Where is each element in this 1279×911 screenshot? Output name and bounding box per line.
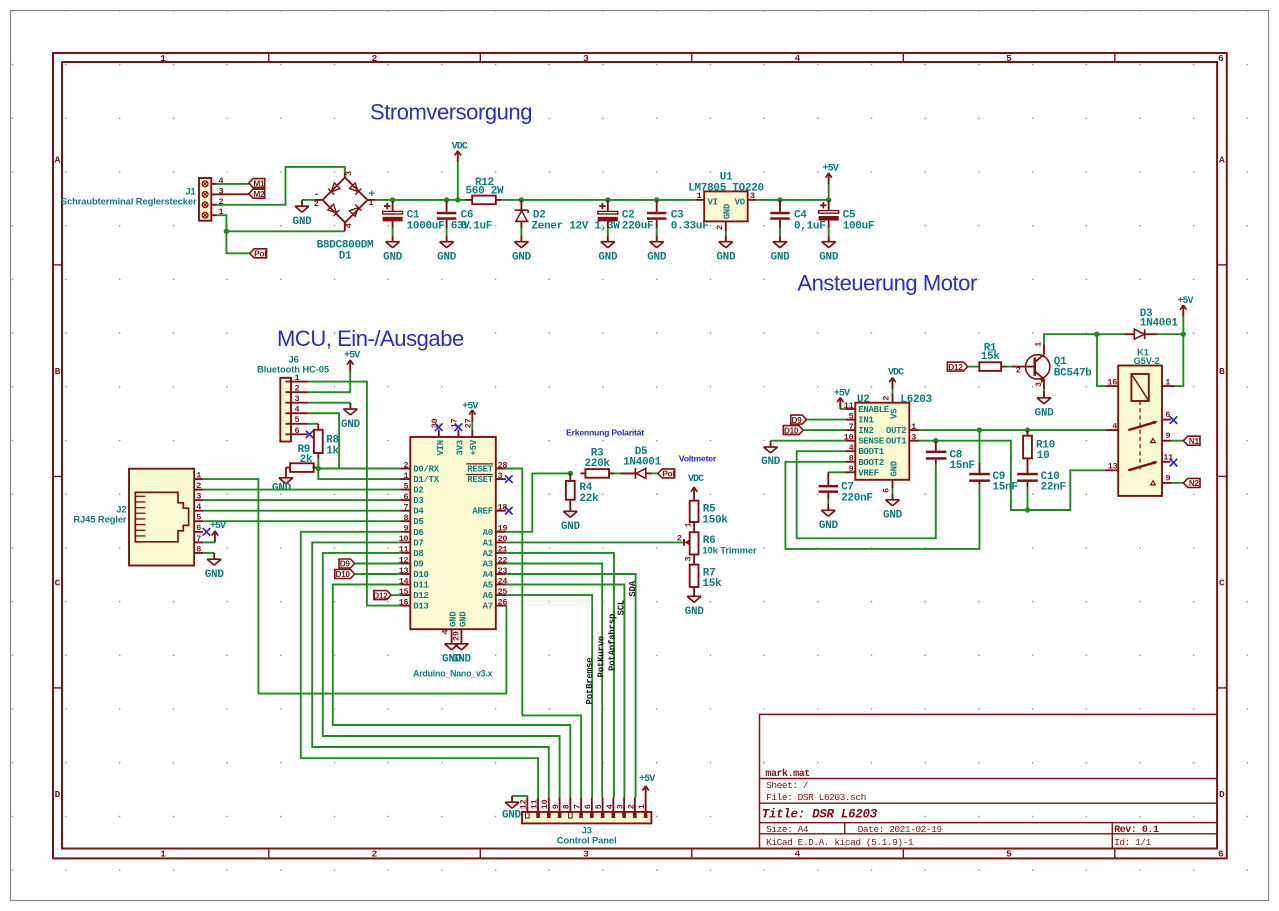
svg-text:3: 3 — [295, 394, 300, 404]
wire relay pin1 — [1175, 334, 1183, 386]
svg-text:GND: GND — [437, 252, 457, 264]
connector J3 Control Panel — [519, 797, 652, 845]
ground — [819, 504, 839, 532]
svg-text:D5: D5 — [413, 517, 423, 527]
svg-text:2k: 2k — [300, 454, 313, 466]
svg-text:1: 1 — [160, 848, 166, 859]
svg-text:2: 2 — [372, 53, 378, 64]
svg-text:GND: GND — [383, 252, 403, 264]
capacitor C10 22nF — [1017, 458, 1066, 493]
svg-text:7: 7 — [572, 804, 582, 809]
svg-text:GND: GND — [723, 203, 733, 219]
svg-text:GND: GND — [293, 216, 313, 228]
no-connect X — [435, 423, 443, 431]
ground — [341, 403, 361, 431]
svg-text:6: 6 — [196, 523, 201, 533]
svg-text:15k: 15k — [702, 578, 722, 590]
svg-text:Erkennung Polarität: Erkennung Polarität — [566, 428, 644, 438]
svg-text:100uF: 100uF — [843, 220, 875, 232]
label D9 — [339, 559, 355, 568]
power VDC at U2 VS — [892, 389, 894, 393]
label D12 — [374, 591, 391, 600]
svg-text:SCL: SCL — [617, 600, 627, 616]
svg-text:8: 8 — [849, 454, 854, 464]
wire OUT2 to relay pin4 — [919, 429, 1105, 431]
capacitor C6 0.1uF — [446, 200, 448, 212]
power +5V — [823, 164, 839, 185]
wire D7 to J3 pin10 — [312, 542, 549, 797]
label M1 — [249, 179, 265, 188]
wire J1 pin3 to M2 — [217, 193, 249, 195]
svg-text:Stromversorgung: Stromversorgung — [370, 100, 532, 125]
svg-text:15nF: 15nF — [950, 460, 975, 472]
svg-text:GND: GND — [819, 252, 839, 264]
svg-text:VS: VS — [890, 408, 900, 419]
junction — [455, 197, 460, 202]
svg-text:5: 5 — [849, 411, 854, 421]
svg-text:7: 7 — [849, 422, 854, 432]
wire J6 pin4 down — [308, 413, 340, 468]
svg-text:7: 7 — [403, 503, 408, 513]
junction — [316, 466, 321, 471]
ground — [502, 796, 522, 821]
svg-text:OUT1: OUT1 — [886, 437, 907, 447]
wire J6 pin1 to D13 — [308, 382, 401, 606]
junction — [605, 197, 610, 202]
svg-text:+5V: +5V — [639, 774, 655, 785]
wire D5 to Pol — [652, 472, 658, 474]
svg-text:D9: D9 — [340, 560, 351, 569]
svg-text:3: 3 — [583, 848, 589, 859]
svg-text:GND: GND — [761, 456, 781, 468]
ground — [442, 638, 462, 666]
wire junction to D1/TX — [318, 469, 400, 480]
svg-text:1: 1 — [1034, 342, 1044, 347]
svg-text:PotAnfahrsp: PotAnfahrsp — [607, 614, 617, 671]
svg-text:GND: GND — [458, 611, 468, 627]
svg-text:D0/RX: D0/RX — [413, 465, 439, 475]
svg-text:220k: 220k — [584, 458, 610, 470]
svg-text:A7: A7 — [483, 602, 493, 612]
power +5V — [344, 351, 360, 372]
svg-text:A4: A4 — [483, 570, 494, 580]
transistor Q1 BC547b — [1012, 342, 1092, 389]
svg-text:RJ45 Regler: RJ45 Regler — [73, 513, 127, 524]
label Pol — [250, 249, 267, 258]
wire D8 to J3 pin9 — [323, 553, 560, 798]
ground — [819, 235, 839, 263]
power VDC — [452, 141, 468, 162]
wire rail R12 to U1 — [502, 199, 696, 201]
label M2 — [249, 189, 265, 198]
wire J2 pin8 to GND — [203, 552, 214, 554]
wire A2 to J3 pin4 — [506, 553, 614, 798]
svg-text:D4: D4 — [413, 507, 424, 517]
svg-text:Id: 1/1: Id: 1/1 — [1114, 837, 1152, 848]
svg-text:4: 4 — [441, 630, 451, 635]
svg-text:4: 4 — [344, 223, 354, 228]
svg-text:4: 4 — [795, 848, 801, 859]
svg-text:BOOT2: BOOT2 — [858, 458, 884, 468]
svg-text:RESET: RESET — [467, 465, 493, 475]
connector J2 RJ45 — [73, 469, 203, 566]
svg-text:IN2: IN2 — [858, 426, 873, 436]
resistor R7 15k — [690, 555, 722, 591]
svg-text:2: 2 — [677, 533, 682, 543]
svg-text:KiCad E.D.A. kicad (5.1.9)-1: KiCad E.D.A. kicad (5.1.9)-1 — [766, 837, 914, 848]
svg-text:D10: D10 — [335, 570, 350, 579]
svg-text:VDC: VDC — [688, 474, 704, 485]
resistor R1 15k — [979, 343, 1006, 371]
wire J1 pin4 to M1 — [217, 183, 249, 185]
svg-text:Bluetooth HC-05: Bluetooth HC-05 — [257, 363, 329, 374]
wire D9 — [355, 563, 401, 565]
ground — [716, 235, 736, 263]
svg-text:+5V: +5V — [1177, 296, 1193, 307]
svg-text:M1: M1 — [253, 179, 265, 188]
svg-text:1: 1 — [684, 523, 694, 528]
svg-text:D12: D12 — [948, 363, 963, 372]
junction — [1181, 332, 1186, 337]
svg-text:5: 5 — [594, 804, 604, 809]
svg-text:5: 5 — [403, 481, 408, 491]
wire J6 pin5 to R8 — [308, 423, 319, 425]
ground — [383, 235, 403, 263]
capacitor C1 1000uF 63V — [392, 200, 394, 212]
svg-text:PotKurve: PotKurve — [596, 636, 606, 678]
svg-text:10k Trimmer: 10k Trimmer — [702, 545, 757, 556]
svg-text:GND: GND — [598, 252, 618, 264]
svg-text:4: 4 — [196, 502, 201, 512]
svg-text:D12: D12 — [373, 591, 388, 600]
wire BOOT2 to C9 bottom — [785, 462, 979, 549]
svg-text:220uF: 220uF — [622, 220, 654, 232]
capacitor C9 15nF — [969, 430, 1017, 494]
svg-text:5: 5 — [1006, 848, 1012, 859]
wire D12 to R1 — [968, 366, 980, 368]
svg-text:GND: GND — [341, 419, 361, 431]
power +5V — [210, 521, 226, 542]
svg-text:1k: 1k — [326, 445, 339, 457]
svg-text:D13: D13 — [413, 602, 428, 612]
svg-text:9: 9 — [1166, 431, 1171, 441]
wire junction to bridge bottom — [226, 230, 344, 232]
svg-text:1: 1 — [911, 422, 916, 432]
svg-text:GND: GND — [512, 252, 532, 264]
ground — [685, 590, 705, 618]
wire D6 to J3 pin11 — [301, 532, 538, 798]
no-connect X — [306, 431, 314, 439]
svg-text:N2: N2 — [1189, 479, 1200, 488]
svg-text:GND: GND — [890, 460, 900, 476]
svg-text:Schraubterminal Reglerstecker: Schraubterminal Reglerstecker — [61, 196, 197, 207]
wire relay pin16 — [1097, 334, 1105, 386]
svg-text:Date: 2021-02-19: Date: 2021-02-19 — [858, 824, 943, 835]
svg-text:GND: GND — [647, 252, 667, 264]
svg-text:A2: A2 — [483, 549, 493, 559]
svg-text:4: 4 — [1112, 421, 1117, 431]
ground — [771, 235, 791, 263]
resistor R12 560 2W — [465, 177, 504, 204]
wire junction to D0/RX — [318, 468, 400, 470]
ground — [437, 235, 457, 263]
svg-text:PotBremse: PotBremse — [585, 658, 595, 705]
junction — [444, 197, 449, 202]
svg-text:ENABLE: ENABLE — [858, 405, 890, 415]
svg-text:9: 9 — [849, 464, 854, 474]
svg-text:16: 16 — [1107, 377, 1117, 387]
svg-text:D7: D7 — [413, 538, 423, 548]
svg-text:+5V: +5V — [823, 164, 839, 175]
svg-text:Rev: 0.1: Rev: 0.1 — [1114, 825, 1159, 836]
ground — [761, 441, 781, 468]
svg-text:A1: A1 — [483, 538, 494, 548]
svg-text:C: C — [55, 578, 61, 589]
svg-text:6: 6 — [1165, 410, 1170, 420]
wire D3 to +5V node — [1157, 333, 1183, 335]
svg-text:6: 6 — [295, 426, 300, 436]
capacitor C2 220uF — [607, 200, 609, 212]
svg-text:15k: 15k — [981, 351, 1001, 363]
svg-text:11: 11 — [529, 799, 539, 809]
wire J6 pin3 to GND — [308, 402, 351, 404]
power +5V — [639, 774, 655, 797]
label D9 (motor) — [791, 415, 807, 424]
svg-text:LM7805_TO220: LM7805_TO220 — [688, 182, 764, 194]
svg-text:22nF: 22nF — [1041, 482, 1066, 494]
svg-text:1: 1 — [295, 373, 300, 383]
resistor R5 150k — [690, 499, 729, 527]
label D10 (motor) — [783, 426, 803, 435]
resistor R8 1k — [314, 424, 340, 459]
svg-text:Pol: Pol — [662, 470, 674, 479]
junction — [977, 427, 982, 432]
svg-text:2: 2 — [314, 199, 319, 209]
wire R8 to junction — [317, 459, 319, 469]
svg-text:Arduino_Nano_v3.x: Arduino_Nano_v3.x — [413, 669, 493, 679]
wire J2 pin2 to D2 — [203, 489, 400, 491]
ground U2 GND pin — [892, 488, 894, 494]
ground — [293, 200, 313, 228]
svg-text:1: 1 — [368, 198, 373, 208]
svg-text:VREF: VREF — [858, 468, 878, 478]
svg-text:10: 10 — [844, 433, 854, 443]
svg-text:2: 2 — [295, 384, 300, 394]
svg-text:U2: U2 — [857, 394, 870, 406]
svg-text:A5: A5 — [483, 581, 493, 591]
svg-text:0.33uF: 0.33uF — [671, 220, 709, 232]
wire junction to Pol label — [226, 231, 249, 253]
svg-text:D9: D9 — [413, 560, 423, 570]
svg-text:A6: A6 — [483, 591, 493, 601]
svg-text:1: 1 — [637, 804, 647, 809]
junction — [519, 197, 524, 202]
label D10 — [335, 570, 355, 579]
junction — [933, 438, 938, 443]
svg-text:N1: N1 — [1189, 437, 1200, 446]
svg-text:BC547b: BC547b — [1054, 368, 1093, 380]
resistor R4 22k — [566, 473, 599, 505]
svg-text:1: 1 — [196, 471, 201, 481]
svg-text:AREF: AREF — [472, 507, 492, 517]
wire J1 pin1 to junction — [217, 215, 227, 231]
svg-text:3: 3 — [684, 557, 694, 562]
svg-text:IN1: IN1 — [858, 416, 874, 426]
wire J1 pin2 to bridge top — [217, 167, 345, 205]
svg-text:OUT2: OUT2 — [886, 426, 906, 436]
svg-text:9: 9 — [551, 804, 561, 809]
svg-text:12: 12 — [519, 799, 529, 809]
svg-text:4: 4 — [605, 804, 615, 809]
svg-text:1N4001: 1N4001 — [623, 456, 662, 468]
svg-text:0.1uF: 0.1uF — [461, 220, 493, 232]
wire BOOT1 to C8 bottom — [797, 451, 936, 538]
bridge rectifier D1 B8DC800DM — [315, 172, 376, 231]
svg-text:5: 5 — [1006, 53, 1012, 64]
wire Q1 emitter to GND — [1043, 389, 1045, 392]
svg-text:C: C — [1219, 578, 1225, 589]
svg-text:16: 16 — [399, 597, 409, 607]
svg-text:D6: D6 — [413, 528, 423, 538]
junction — [654, 197, 659, 202]
svg-text:8: 8 — [562, 804, 572, 809]
resistor R9 2k — [286, 444, 318, 472]
svg-text:D1/TX: D1/TX — [413, 475, 439, 485]
trimmer R6 10k — [677, 522, 757, 562]
junction — [390, 197, 395, 202]
svg-text:2: 2 — [715, 225, 725, 230]
junction — [1025, 507, 1030, 512]
IC U3 Arduino_Nano_v3.x — [399, 418, 508, 678]
svg-text:GND: GND — [819, 520, 839, 532]
svg-text:4: 4 — [295, 405, 300, 415]
wire D11 to J3 pin8 — [333, 585, 571, 798]
svg-text:6: 6 — [583, 804, 593, 809]
ground — [272, 472, 293, 495]
svg-text:8: 8 — [403, 513, 408, 523]
svg-text:7: 7 — [196, 534, 201, 544]
svg-text:11: 11 — [844, 401, 854, 411]
label Pol — [658, 469, 675, 478]
junction — [826, 197, 831, 202]
svg-text:9: 9 — [1166, 474, 1171, 484]
svg-text:2: 2 — [626, 804, 636, 809]
svg-text:Voltmeter: Voltmeter — [679, 454, 717, 464]
svg-text:A3: A3 — [483, 560, 493, 570]
power VDC — [688, 474, 704, 499]
svg-text:A0: A0 — [483, 528, 493, 538]
connector J1 Schraubterminal — [61, 176, 224, 221]
svg-text:8: 8 — [196, 544, 201, 554]
capacitor C8 15nF — [926, 441, 975, 473]
label D12 (motor) — [947, 362, 967, 371]
svg-text:4: 4 — [795, 53, 801, 64]
svg-text:+5V: +5V — [344, 351, 360, 362]
svg-text:+5V: +5V — [210, 521, 226, 532]
svg-text:A: A — [1219, 155, 1225, 166]
svg-text:6: 6 — [881, 488, 891, 493]
ground — [883, 494, 903, 522]
power +5V at ENABLE — [840, 408, 845, 410]
capacitor C7 220nF — [819, 472, 873, 504]
IC U2 L6203 — [844, 393, 933, 493]
svg-text:3: 3 — [1034, 382, 1044, 387]
wire J3 pin12 to GND — [512, 796, 527, 798]
capacitor C4 0,1uF — [779, 200, 781, 212]
diode D5 1N4001 — [615, 446, 662, 479]
capacitor C5 100uF — [828, 200, 830, 211]
wire U1 out to C5 — [756, 199, 829, 201]
svg-text:10: 10 — [540, 799, 550, 809]
svg-text:Size: A4: Size: A4 — [766, 824, 809, 835]
svg-text:G5V-2: G5V-2 — [1133, 355, 1159, 366]
svg-text:GND: GND — [205, 569, 225, 581]
svg-text:D2: D2 — [413, 486, 423, 496]
svg-text:D: D — [1219, 789, 1225, 800]
ground — [512, 235, 532, 263]
no-connect X — [1170, 416, 1178, 424]
junction — [224, 229, 229, 234]
svg-text:GND: GND — [272, 483, 292, 495]
svg-text:2: 2 — [403, 460, 408, 470]
wire OUT1 run — [919, 441, 1105, 510]
capacitor C3 0.33uF — [656, 200, 658, 212]
wire +5V pin27 — [471, 422, 473, 430]
svg-text:RESET: RESET — [467, 475, 493, 485]
wire relay to N2 — [1172, 482, 1184, 484]
no-connect X — [505, 507, 513, 515]
svg-text:1: 1 — [160, 53, 166, 64]
svg-text:VDC: VDC — [452, 141, 468, 152]
svg-text:D12: D12 — [413, 591, 428, 601]
svg-text:6: 6 — [1218, 53, 1224, 64]
svg-text:3: 3 — [196, 492, 201, 502]
svg-text:GND: GND — [502, 809, 522, 821]
zener diode D2 12V — [514, 200, 620, 232]
svg-text:29: 29 — [451, 631, 461, 641]
wire J2 pin4 to D4 — [203, 510, 400, 512]
svg-text:+5V: +5V — [469, 439, 479, 455]
svg-text:26: 26 — [498, 597, 508, 607]
svg-text:2: 2 — [372, 848, 378, 859]
label N2 — [1183, 478, 1200, 487]
power +5V at relay — [1182, 317, 1184, 335]
no-connect X — [505, 475, 513, 483]
svg-text:6: 6 — [1218, 848, 1224, 859]
resistor R3 220k — [581, 447, 615, 477]
svg-text:SDA: SDA — [628, 580, 638, 596]
ground — [452, 638, 472, 666]
svg-text:560 2W: 560 2W — [465, 186, 504, 198]
svg-text:Control Panel: Control Panel — [557, 834, 617, 845]
svg-text:5: 5 — [295, 415, 300, 425]
svg-text:Sheet: /: Sheet: / — [766, 780, 809, 791]
svg-text:D1: D1 — [339, 250, 352, 262]
wire D10 — [355, 573, 401, 575]
label N1 — [1183, 436, 1200, 445]
wire R1 to Q1 base — [1007, 366, 1013, 368]
svg-text:VIN: VIN — [436, 440, 446, 455]
svg-text:10: 10 — [1037, 450, 1050, 462]
svg-text:4: 4 — [849, 443, 854, 453]
svg-text:9: 9 — [403, 524, 408, 534]
svg-text:GND: GND — [716, 252, 736, 264]
svg-text:GND: GND — [1035, 408, 1055, 420]
wire D12 — [391, 594, 400, 596]
wire A5 to J3 pin3 — [506, 585, 625, 798]
junction — [777, 197, 782, 202]
wire A3 to J3 pin5 — [506, 564, 602, 798]
